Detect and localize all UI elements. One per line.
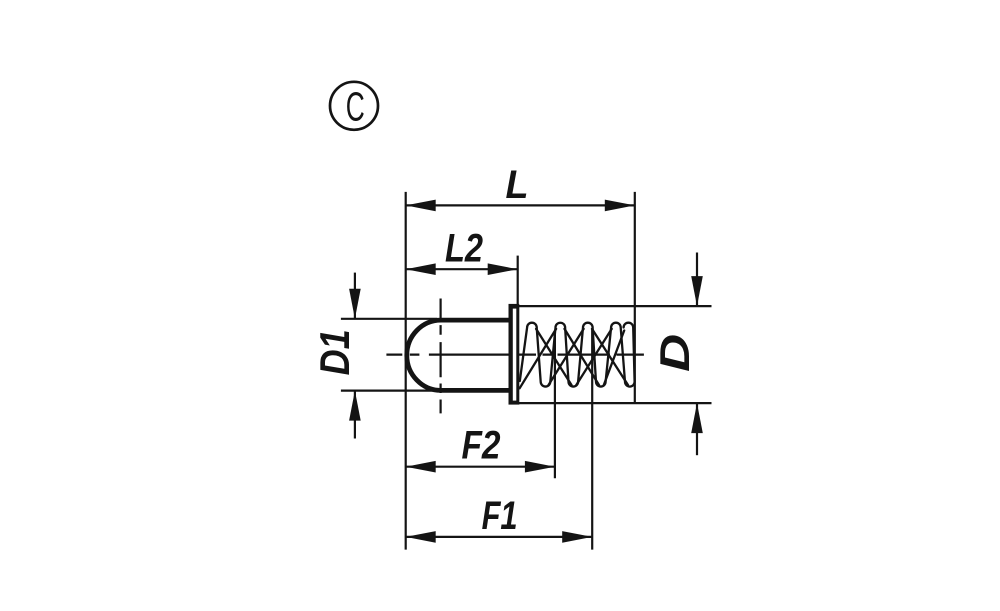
dimension L2 [406,226,518,275]
dimension F2 [406,424,555,473]
dimension L [406,163,635,211]
dimension D1 (left, vertical) [311,273,437,439]
dimension F1 [406,494,593,543]
flange (spring seat collar) [509,304,520,405]
spring coil wire: back-strand shallow ascending lines [520,329,625,388]
F1 right extension line [591,328,593,550]
extension line right for L / spring envelope right edge [634,192,636,403]
plunger pin body (thick outline) [407,320,512,390]
svg-text:F2: F2 [462,424,501,468]
svg-text:L2: L2 [445,226,483,270]
svg-text:D1: D1 [311,329,358,375]
extension line left (common for L, L2, F2, F1) [405,192,407,550]
svg-text:D: D [651,334,698,372]
svg-text:C: C [346,84,365,130]
spring envelope bottom line + D bottom extension [519,402,712,404]
F2 right extension line [554,331,556,478]
horizontal centerline (dash-dot segments) [386,354,644,356]
L2 right extension line [517,256,519,305]
svg-text:L: L [506,163,529,207]
svg-text:F1: F1 [482,494,518,538]
view label circle C [330,82,378,130]
spring envelope top line + D top extension [519,305,712,307]
vertical centerline (dash-dot segments) [440,299,442,414]
spring coil wire: back-strand shallow descending lines [536,329,628,385]
dimension D (right, vertical) [651,253,703,456]
spring coil wire: primary steep zigzag with rounded caps [520,323,635,387]
